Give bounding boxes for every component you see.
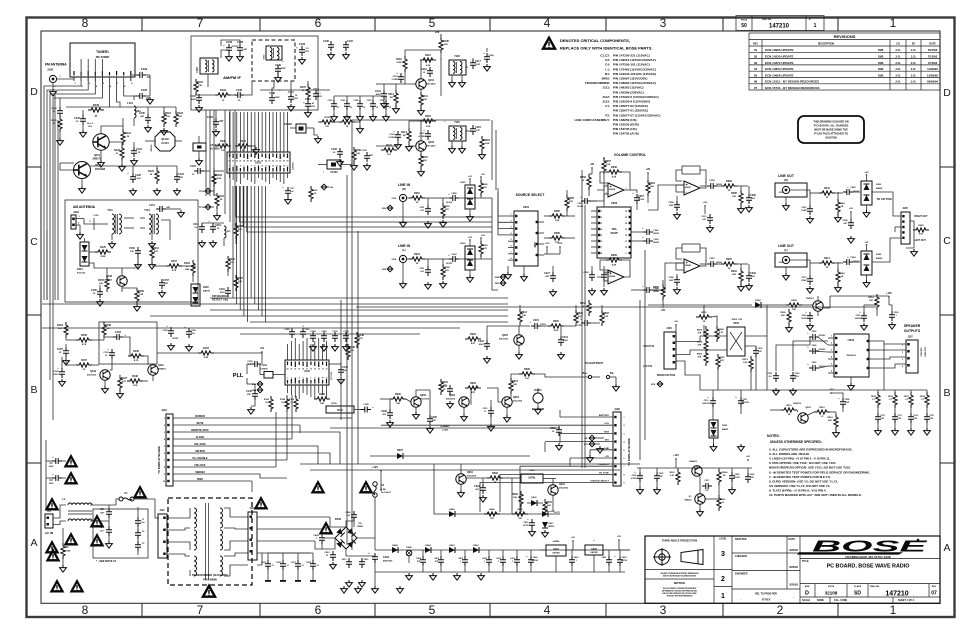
svg-text:R120: R120 [93, 103, 100, 107]
resistor R102 [212, 171, 216, 187]
svg-text:3/25/93: 3/25/93 [789, 583, 798, 587]
svg-text:+9V: +9V [468, 176, 472, 178]
svg-text:8: 8 [511, 258, 512, 260]
svg-text:4. LM324 (14 PIN): +V IS PIN 4: 4. LM324 (14 PIN): +V IS PIN 4, -V IS PI… [769, 457, 830, 461]
svg-text:8: 8 [314, 378, 315, 380]
capacitor C219b [488, 407, 494, 417]
svg-text:R505: R505 [697, 330, 703, 332]
svg-text:47K: 47K [698, 332, 702, 335]
connector J107 [906, 340, 918, 373]
svg-text:47K: 47K [154, 250, 158, 253]
wire R154 long [198, 351, 214, 355]
svg-text:C210: C210 [750, 272, 756, 275]
svg-text:C157: C157 [57, 348, 63, 351]
svg-text:6: 6 [624, 458, 625, 460]
svg-text:*: * [322, 171, 326, 172]
svg-text:10K: 10K [654, 290, 658, 292]
resistor R161 [150, 245, 154, 261]
svg-text:L100: L100 [94, 215, 100, 217]
resistor R137 [118, 375, 122, 391]
svg-text:2SC2412: 2SC2412 [87, 374, 97, 377]
svg-text:6: 6 [831, 371, 832, 373]
wire bus horizontal middle [42, 303, 508, 305]
svg-text:470/16V: 470/16V [532, 559, 539, 562]
svg-text:.: . [793, 594, 794, 599]
svg-text:.0047: .0047 [48, 465, 54, 468]
svg-text:P-CAD FILES ATTACHED TO: P-CAD FILES ATTACHED TO [814, 133, 848, 136]
svg-text:R152: R152 [184, 262, 190, 265]
capacitor C209 [674, 276, 680, 286]
svg-text:10K: 10K [513, 497, 517, 499]
capacitor C205 [427, 415, 433, 425]
svg-text:100/16V: 100/16V [621, 560, 628, 562]
svg-text:R406: R406 [489, 508, 495, 511]
svg-text:R255: R255 [554, 210, 560, 213]
svg-text:40K: 40K [828, 419, 832, 422]
warning triangle J111a [46, 499, 57, 509]
svg-text:R158: R158 [81, 334, 87, 337]
wire bridge to rail [357, 537, 375, 539]
wire bus vertical center [346, 175, 348, 545]
capacitor C418b [606, 556, 612, 566]
svg-text:13: 13 [322, 369, 324, 371]
svg-text:REPLACE ONLY WITH IDENTICAL BO: REPLACE ONLY WITH IDENTICAL BOSE PARTS. [560, 46, 653, 51]
svg-text:R514: R514 [868, 296, 874, 299]
svg-text:15: 15 [314, 369, 316, 371]
svg-text:TO CD PCB: TO CD PCB [876, 197, 891, 201]
svg-text:C119: C119 [421, 68, 427, 71]
svg-text:.047: .047 [750, 476, 754, 479]
mute block X502 [727, 327, 745, 356]
resistor R201 [409, 257, 425, 261]
svg-text:11: 11 [625, 241, 627, 243]
capacitor C137b [63, 347, 69, 357]
svg-text:*: * [372, 406, 373, 410]
wire main rail [375, 549, 630, 551]
svg-text:8: 8 [624, 474, 625, 476]
svg-text:47K: 47K [230, 261, 234, 264]
resistor R511 [781, 408, 797, 412]
svg-text:7: 7 [197, 16, 204, 30]
connector J106 FROM CD PCB [664, 332, 676, 369]
svg-text:TDA1514: TDA1514 [846, 354, 856, 357]
svg-text:8: 8 [254, 166, 255, 168]
svg-text:147210: 147210 [885, 591, 908, 598]
transformer T101 [112, 214, 115, 234]
svg-text:FM ANTENNA: FM ANTENNA [45, 63, 67, 67]
right zone ticks [940, 166, 955, 168]
svg-text:UNLESS OTHERWISE SPECIFIED:: UNLESS OTHERWISE SPECIFIED: [770, 440, 822, 444]
svg-text:10/16V: 10/16V [446, 263, 453, 265]
svg-text:.01: .01 [484, 411, 487, 413]
resistor R131 [381, 148, 397, 152]
warning triangle J111b [46, 542, 57, 552]
svg-text:9: 9 [258, 166, 259, 168]
svg-text:R122: R122 [114, 149, 120, 152]
power +9V volume [591, 167, 593, 169]
svg-text:C144: C144 [342, 366, 348, 369]
svg-text:T106: T106 [454, 55, 460, 58]
resistor R267 [721, 262, 737, 266]
svg-text:T103: T103 [196, 67, 199, 73]
capacitor C503 [790, 372, 796, 382]
svg-text:KV1235: KV1235 [77, 273, 86, 275]
svg-text:T100: T100 [454, 121, 460, 124]
svg-text:47K: 47K [445, 208, 449, 211]
svg-text:9: 9 [624, 483, 625, 485]
wire J113 to bridge [257, 516, 330, 518]
svg-text:C104: C104 [190, 165, 196, 168]
svg-text:2N4403: 2N4403 [689, 460, 697, 463]
svg-text:4: 4 [902, 365, 903, 368]
svg-text:1: 1 [624, 417, 625, 419]
varactor D101 [80, 242, 89, 266]
transistor Q502 [813, 301, 823, 311]
svg-text:H-42842C: H-42842C [440, 425, 450, 428]
AM section box [65, 200, 198, 302]
svg-text:2SC2812: 2SC2812 [446, 399, 456, 401]
svg-text:47K: 47K [471, 342, 475, 345]
ic U203 volume TDA1524 [597, 207, 631, 258]
svg-text:RIGHT OUT: RIGHT OUT [914, 215, 928, 218]
svg-text:50: 50 [741, 23, 747, 29]
power +5V U402 out [618, 539, 620, 541]
svg-text:CHECKER: CHECKER [735, 555, 747, 558]
svg-text:C242: C242 [850, 256, 856, 259]
svg-text:C218: C218 [583, 272, 589, 274]
resistor R210 [739, 268, 743, 284]
transistor Q503 [798, 413, 808, 423]
resistor R156 [135, 288, 139, 304]
svg-text:P-CAD DATA. ALL CHANGES: P-CAD DATA. ALL CHANGES [814, 125, 849, 128]
power +11V U201 [546, 246, 548, 248]
svg-text:4.7K: 4.7K [82, 343, 87, 346]
tuner U100 TUNER1 FM-TUNER [70, 43, 135, 77]
svg-text:J.O.: J.O. [895, 80, 901, 84]
svg-text:R250: R250 [482, 184, 488, 186]
wire j105 gnd [906, 221, 914, 248]
svg-text:+9V: +9V [435, 30, 440, 34]
svg-text:U401: U401 [553, 548, 559, 551]
svg-text:3: 3 [660, 16, 667, 30]
svg-text:2. ALL CAPACITORS ARE EXPRESSE: 2. ALL CAPACITORS ARE EXPRESSED IN MICRO… [769, 448, 853, 452]
svg-text:R202: R202 [444, 267, 450, 269]
resistor R220 [676, 469, 680, 485]
wire q cluster rail [637, 467, 752, 469]
svg-text:C154: C154 [53, 370, 59, 373]
svg-text:2: 2 [831, 343, 832, 345]
svg-text:SENSE3: SENSE3 [195, 471, 205, 474]
svg-text:R256: R256 [568, 197, 574, 200]
svg-text:1N5239: 1N5239 [548, 526, 554, 528]
svg-text:2.2: 2.2 [889, 399, 892, 401]
svg-text:R115: R115 [422, 156, 428, 159]
svg-text:7: 7 [310, 378, 311, 380]
transistor Q306 [459, 397, 469, 407]
svg-text:35V: 35V [318, 96, 322, 98]
svg-text:T102: T102 [264, 54, 266, 60]
svg-text:P/N 135677-01 (230VAC): P/N 135677-01 (230VAC) [613, 109, 648, 113]
svg-text:.01: .01 [376, 107, 379, 109]
svg-text:47K: 47K [483, 186, 487, 189]
wire J102 signals [560, 416, 613, 418]
svg-text:AT REV: AT REV [762, 599, 771, 602]
svg-text:100P: 100P [669, 205, 674, 207]
svg-text:CLOCK: CLOCK [196, 436, 205, 439]
svg-text:J105: J105 [902, 207, 908, 210]
resistor R501 [696, 315, 712, 319]
svg-text:T101: T101 [107, 209, 113, 212]
svg-text:REL TO PROD PER: REL TO PROD PER [755, 593, 777, 596]
connector J113 [248, 512, 257, 560]
capacitor C131 [131, 147, 137, 157]
svg-text:LC7213: LC7213 [331, 371, 333, 380]
svg-text:P/N 135677-07 (115VAC/230VAC): P/N 135677-07 (115VAC/230VAC) [613, 113, 660, 117]
svg-text:C133: C133 [331, 148, 337, 151]
svg-text:U202A: U202A [609, 188, 616, 191]
svg-text:NON-EUROPEAN OPTION: USE Y101;: NON-EUROPEAN OPTION: USE Y101; DO NOT US… [769, 466, 851, 470]
svg-text:1M: 1M [389, 97, 392, 99]
svg-text:J113:: J113: [602, 100, 610, 104]
svg-text:CF103: CF103 [330, 171, 338, 174]
svg-text:TITLE: TITLE [802, 560, 809, 563]
svg-text:47/25V: 47/25V [734, 476, 740, 479]
svg-text:47K: 47K [471, 391, 475, 394]
svg-text:.047: .047 [914, 417, 918, 420]
svg-text:5REF: 5REF [197, 478, 204, 481]
capacitor C121 [381, 90, 387, 100]
power +15V spk [888, 296, 890, 298]
test point TP103 [321, 184, 327, 190]
capacitor C133 [337, 148, 343, 158]
svg-text:B: B [30, 384, 37, 396]
svg-text:8. EURO VERSION: USE Y3; DO NO: 8. EURO VERSION: USE Y3; DO NOT USE Y1,Y… [769, 479, 838, 483]
svg-text:R112: R112 [425, 54, 431, 57]
svg-text:2: 2 [902, 352, 903, 354]
svg-text:SOURCE SELECT: SOURCE SELECT [516, 193, 546, 197]
svg-text:L151: L151 [226, 231, 232, 233]
svg-text:2SC2412: 2SC2412 [513, 400, 523, 403]
svg-text:.1: .1 [895, 315, 897, 317]
svg-text:R111: R111 [422, 95, 428, 98]
svg-text:TUNER1: TUNER1 [96, 50, 109, 54]
svg-text:ECN 14372 UPDATE: ECN 14372 UPDATE [765, 61, 793, 65]
capacitor C406 [351, 511, 357, 521]
wire U501 to J107 [876, 341, 906, 344]
svg-text:+9V: +9V [865, 172, 869, 174]
svg-text:DWL: DWL [878, 48, 884, 52]
op-amp U202C [684, 181, 700, 195]
wire bundle below IF box [205, 110, 207, 196]
resistor R258 feedback [600, 172, 608, 183]
svg-text:C114: C114 [193, 223, 199, 226]
svg-text:DRAFTER: DRAFTER [735, 538, 747, 541]
svg-text:R123: R123 [177, 112, 183, 115]
svg-text:Q302: Q302 [449, 394, 456, 397]
svg-text:R512: R512 [827, 417, 833, 419]
svg-text:LEVEL: LEVEL [719, 538, 727, 541]
svg-text:P/N 148960 (115VAC/230VAC): P/N 148960 (115VAC/230VAC) [613, 81, 656, 85]
svg-text:3: 3 [660, 603, 667, 617]
wire bus line in feed [491, 120, 493, 180]
transistor Q101 [416, 79, 426, 89]
capacitor C219 [556, 426, 562, 436]
svg-text:13: 13 [272, 166, 274, 168]
wire IF internal [207, 74, 209, 87]
capacitor Y2 [135, 529, 141, 539]
transistor Q304 [502, 397, 512, 407]
svg-text:.01: .01 [271, 565, 274, 567]
svg-text:6: 6 [511, 246, 512, 248]
svg-text:R317: R317 [512, 380, 518, 383]
svg-text:16: 16 [625, 211, 627, 213]
diode D401 [531, 500, 537, 506]
svg-text:P/N 135687 (115V/230V): P/N 135687 (115V/230V) [613, 77, 647, 81]
resistor R305 [519, 372, 535, 376]
svg-text:10/10W: 10/10W [64, 551, 71, 553]
svg-text:2.2: 2.2 [905, 399, 908, 401]
svg-text:J.O.: J.O. [895, 73, 901, 77]
svg-text:16/50V: 16/50V [653, 233, 660, 235]
svg-text:10K: 10K [522, 315, 526, 317]
svg-text:C209: C209 [668, 277, 674, 279]
svg-text:J.O.: J.O. [895, 55, 901, 59]
resistor R316b [465, 386, 481, 390]
svg-text:C242: C242 [850, 186, 856, 189]
svg-text:3/25/93: 3/25/93 [789, 548, 798, 552]
svg-text:1/50V: 1/50V [53, 374, 59, 376]
svg-text:MUTE: MUTE [197, 422, 204, 425]
svg-text:QF102: QF102 [161, 138, 169, 141]
capacitor C124 [174, 173, 180, 183]
svg-text:100K: 100K [396, 62, 402, 64]
wire upper chain [440, 513, 560, 515]
svg-text:R504: R504 [718, 328, 724, 331]
svg-text:14: 14 [318, 368, 320, 371]
svg-text:C262: C262 [653, 230, 659, 232]
svg-text:B: B [943, 387, 950, 399]
svg-text:2: 2 [721, 576, 725, 583]
capacitor C242 line out left [843, 259, 853, 265]
capacitor C136 [328, 41, 334, 51]
wire to opamp c [648, 185, 684, 210]
svg-text:47K: 47K [698, 344, 702, 347]
test point TP101 [205, 188, 211, 194]
diode pack D102 [191, 284, 200, 306]
svg-text:R125: R125 [100, 246, 106, 249]
svg-text:R148: R148 [358, 334, 364, 337]
svg-text:3: 3 [721, 551, 725, 558]
svg-text:C116: C116 [475, 126, 481, 129]
capacitor Y1 [135, 517, 141, 527]
svg-text:07: 07 [754, 86, 758, 90]
svg-text:.047: .047 [881, 417, 885, 420]
wire U201 inputs [498, 200, 508, 216]
resistor R157 [166, 264, 182, 268]
svg-text:VOL DATA: VOL DATA [194, 443, 206, 446]
wire secondary rail [375, 571, 625, 573]
wire spk top right [830, 295, 889, 297]
ground near R106 [251, 145, 256, 147]
resistor R250 line in right [479, 180, 483, 196]
wire r164 row [318, 121, 320, 123]
capacitor C126b [470, 125, 476, 135]
svg-text:CH: CH [896, 43, 900, 46]
svg-text:(L): (L) [784, 248, 787, 252]
svg-text:8.2K: 8.2K [612, 265, 617, 267]
svg-text:20: 20 [279, 161, 281, 163]
svg-text:C257: C257 [638, 195, 644, 198]
resistor R124 [155, 168, 159, 184]
diode D407 zener [542, 522, 548, 528]
svg-text:R107: R107 [300, 86, 306, 89]
svg-text:C3:: C3: [605, 58, 610, 62]
lamp D405 [406, 550, 412, 556]
svg-text:1M: 1M [402, 135, 405, 137]
svg-text:P/N 153220-8 (115V/230V): P/N 153220-8 (115V/230V) [613, 100, 650, 104]
svg-text:LM78L: LM78L [528, 477, 536, 480]
wire rf row3 [318, 164, 327, 166]
svg-text:R155: R155 [98, 279, 104, 282]
power +9V U401 out [572, 540, 574, 542]
ic U101 AM FM chip [227, 152, 290, 173]
svg-text:R162: R162 [229, 258, 235, 261]
resistor R103 [215, 93, 231, 97]
transistor Q221 [695, 494, 705, 504]
svg-text:2: 2 [777, 603, 784, 617]
svg-text:10K: 10K [356, 153, 360, 155]
svg-text:10/16V: 10/16V [446, 202, 453, 204]
svg-text:4.7K: 4.7K [134, 359, 139, 362]
test points M8 M11 [589, 435, 595, 441]
transformer T103 [200, 58, 218, 74]
wire left col verticals [54, 95, 56, 300]
svg-text:P/N 147250-101 (115VAC): P/N 147250-101 (115VAC) [613, 63, 650, 67]
svg-text:UA7805: UA7805 [590, 551, 598, 554]
transformer T104 [149, 214, 152, 234]
svg-text:B400:: B400: [602, 77, 610, 81]
svg-text:C221: C221 [474, 485, 480, 488]
svg-text:TO BATTERY: TO BATTERY [585, 361, 604, 365]
svg-text:C136: C136 [323, 40, 329, 43]
svg-text:+9V: +9V [481, 174, 485, 176]
svg-text:R113: R113 [388, 93, 394, 96]
svg-text:3/25/93: 3/25/93 [789, 565, 798, 569]
svg-text:+9V: +9V [646, 168, 651, 171]
resistor R260 [739, 190, 743, 206]
wire tp stack [214, 170, 224, 172]
svg-text:ECN 15111 - BY DESIGN RESOURCE: ECN 15111 - BY DESIGN RESOURCES [765, 80, 819, 84]
svg-text:2SC2812: 2SC2812 [559, 488, 569, 490]
test point line in left [387, 266, 393, 272]
svg-text:05: 05 [754, 73, 758, 77]
left zone ticks [27, 166, 42, 168]
svg-text:5. PDS OPTION: USE T102 ; DO N: 5. PDS OPTION: USE T102 ; DO NOT USE Y10… [769, 461, 837, 465]
svg-text:4: 4 [299, 377, 300, 380]
svg-text:R105: R105 [220, 140, 226, 143]
resistor R125 [95, 250, 111, 254]
svg-text:100P: 100P [669, 280, 674, 282]
svg-text:R211: R211 [824, 257, 830, 260]
svg-text:4.7K: 4.7K [172, 269, 177, 272]
svg-text:C125: C125 [141, 88, 148, 92]
svg-text:16/50V: 16/50V [653, 242, 660, 244]
svg-text:10: 10 [163, 481, 165, 483]
resistor R316a [465, 337, 481, 341]
connector J111 AC IN [45, 514, 53, 528]
svg-text:R121: R121 [125, 132, 131, 135]
resistor R157b [76, 363, 92, 367]
